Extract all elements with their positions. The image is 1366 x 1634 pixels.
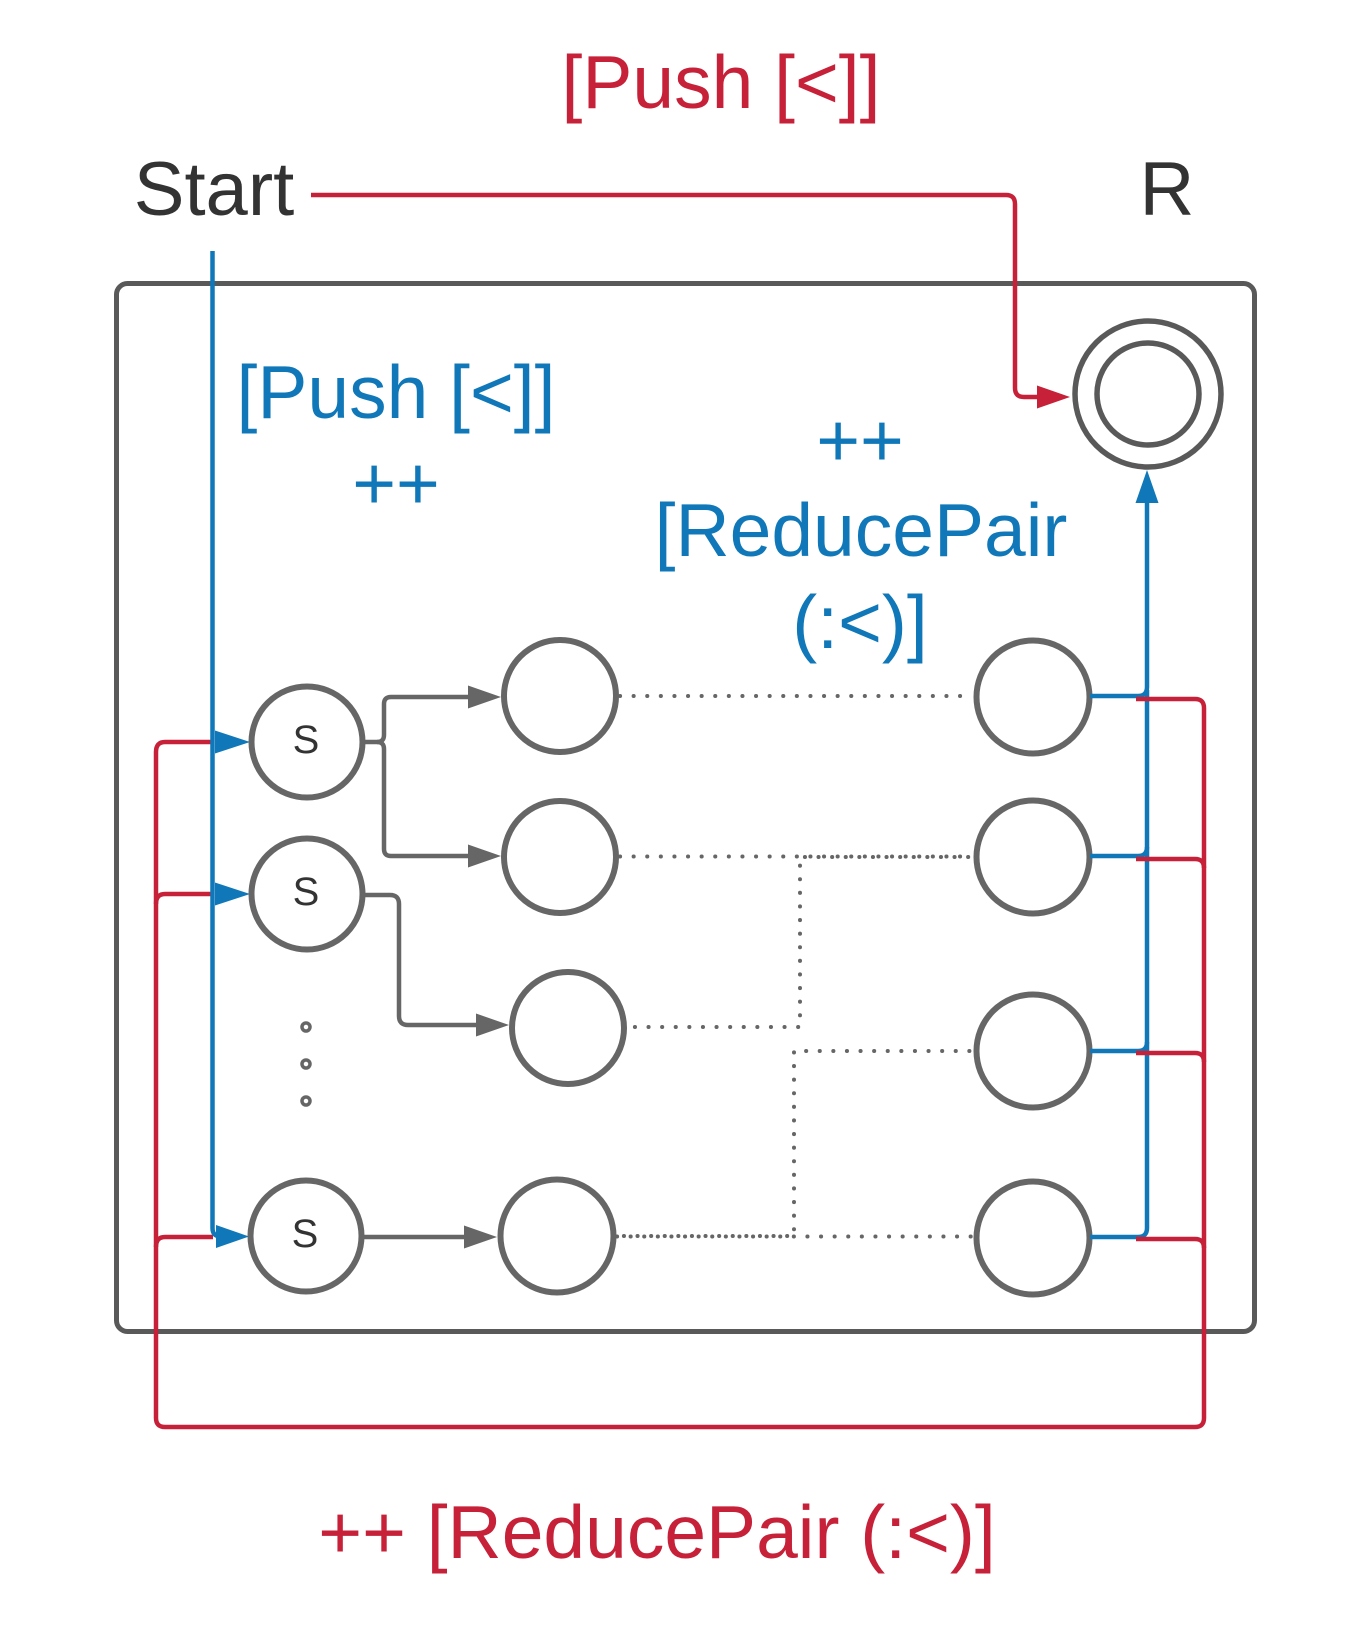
arrowhead grey into M2 bbox=[468, 845, 501, 868]
svg-text:S: S bbox=[292, 1212, 319, 1256]
frame box bbox=[117, 284, 1255, 1332]
state T2 right column bbox=[977, 801, 1090, 914]
state T1 right column bbox=[977, 641, 1090, 754]
state S3 bbox=[251, 1181, 362, 1292]
svg-text:++: ++ bbox=[352, 441, 440, 525]
arrowhead blue into accept state bbox=[1136, 470, 1159, 503]
wire red T-column to bottom loop bbox=[156, 699, 1204, 1427]
label [Push [<]] ++ blue left bbox=[237, 350, 556, 525]
state T3 right column bbox=[977, 995, 1090, 1108]
state M4 middle column bbox=[501, 1180, 614, 1293]
state T4 right column bbox=[977, 1182, 1090, 1295]
svg-text:++: ++ bbox=[816, 398, 904, 482]
wire red left branch to S2 bbox=[156, 894, 213, 904]
arrowhead grey into M4 bbox=[464, 1226, 497, 1249]
wire grey S1 to M1 bbox=[362, 697, 470, 742]
state M3 middle column bbox=[512, 972, 624, 1084]
dotted wire M4 to T3 via elbow bbox=[617, 1051, 973, 1236]
svg-text:[ReducePair: [ReducePair bbox=[655, 488, 1068, 572]
arrowhead grey into M3 bbox=[476, 1014, 509, 1037]
state S1 bbox=[252, 687, 363, 798]
vertical ellipsis dots bbox=[302, 1023, 310, 1105]
wire grey S1 to M2 bbox=[377, 742, 470, 856]
dotted wire M2 to T2 bbox=[620, 855, 973, 859]
state S2 bbox=[252, 839, 363, 950]
svg-text:(:<)]: (:<)] bbox=[792, 580, 927, 664]
dotted wire M1 to T1 bbox=[617, 696, 973, 1237]
wire red Start to accept state bbox=[311, 195, 1038, 397]
svg-text:Start: Start bbox=[134, 147, 295, 232]
accept state R double circle bbox=[1075, 321, 1221, 467]
arrowhead blue into S1 bbox=[215, 731, 250, 754]
svg-text:S: S bbox=[293, 718, 320, 762]
wire red left branch to S3 bbox=[156, 1237, 213, 1247]
arrowhead red into accept state bbox=[1037, 386, 1070, 409]
dotted wire M4 to T4 bbox=[617, 1235, 973, 1239]
wire blue T1..T4 up to accept state bbox=[1090, 502, 1147, 1237]
svg-text:S: S bbox=[293, 870, 320, 914]
arrowhead blue into S2 bbox=[215, 883, 250, 906]
state M1 middle column bbox=[504, 640, 616, 752]
svg-text:[Push [<]]: [Push [<]] bbox=[237, 350, 556, 434]
wire grey S3 to M4 bbox=[362, 1235, 466, 1240]
label ++ [ReducePair (:<)] blue right bbox=[655, 398, 1068, 664]
svg-text:++ [ReducePair (:<)]: ++ [ReducePair (:<)] bbox=[318, 1490, 995, 1574]
arrowhead grey into M1 bbox=[468, 686, 501, 709]
state M2 middle column bbox=[504, 801, 616, 913]
arrowhead blue into S3 bbox=[216, 1225, 249, 1248]
svg-text:R: R bbox=[1140, 147, 1195, 232]
wire blue Start down the left side bbox=[213, 251, 225, 1237]
svg-text:[Push [<]]: [Push [<]] bbox=[562, 40, 881, 124]
wire grey S2 to M3 bbox=[362, 895, 478, 1025]
dotted wire M3 to T2 via elbow bbox=[628, 857, 973, 1027]
